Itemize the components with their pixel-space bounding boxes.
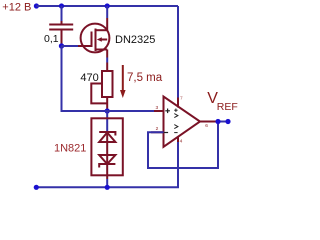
svg-text:1N821: 1N821 <box>54 143 86 155</box>
wire zener node to op-amp <box>105 110 155 112</box>
svg-text:3: 3 <box>156 105 159 111</box>
diode bottom: cathode bar <box>99 164 115 168</box>
+input stub <box>154 110 164 112</box>
V+ rotated label <box>174 109 178 118</box>
svg-text:2: 2 <box>156 126 159 132</box>
wire -input / feedback loop <box>148 122 218 169</box>
gate bar <box>91 32 93 48</box>
wire gate node down <box>62 46 106 111</box>
wire top +12V rail <box>36 5 178 7</box>
op-amp U1 <box>151 96 216 147</box>
resistor R1 470 <box>91 71 112 111</box>
wire zener top lead <box>106 111 108 131</box>
node junction gate/cap <box>59 43 64 48</box>
node output terminal <box>225 119 230 124</box>
wire bottom rail <box>36 186 179 188</box>
channel bar <box>95 29 97 52</box>
minus sign <box>164 132 168 134</box>
capacitor C1 0.1 <box>49 21 73 45</box>
wire gate <box>62 45 79 47</box>
node junction zener bottom <box>105 185 110 190</box>
node junction drain/rail <box>105 3 110 8</box>
wire output <box>216 121 228 123</box>
wire source to resistor <box>106 58 108 63</box>
wire cap top lead <box>61 6 63 21</box>
body arrow head <box>97 37 102 42</box>
zener top: cathode bar <box>99 132 115 136</box>
wire zener bottom to rail <box>106 179 108 187</box>
node +12V terminal dot <box>34 3 39 8</box>
gate lead inside <box>78 45 92 47</box>
node ground terminal dot <box>34 185 39 190</box>
wire V+ supply drop <box>177 6 179 98</box>
transistor Q1 DN2325 (depletion MOSFET) <box>78 18 109 58</box>
svg-text:7: 7 <box>180 96 183 102</box>
zener top: triangle <box>99 133 115 143</box>
source stub <box>96 49 108 51</box>
svg-text:470: 470 <box>80 72 98 84</box>
svg-text:0,1: 0,1 <box>44 33 59 45</box>
V- pin stub <box>177 137 179 143</box>
V+ pin stub <box>177 98 179 108</box>
output stub <box>200 121 216 123</box>
V- rotated label <box>174 125 178 133</box>
source lead down <box>106 50 108 58</box>
node output junction <box>215 119 220 124</box>
tap hook <box>91 84 107 104</box>
drain stub <box>96 29 108 31</box>
diode bottom: triangle <box>99 155 115 164</box>
node junction cap/rail <box>59 3 64 8</box>
node junction zener top <box>105 108 110 113</box>
svg-text:DN2325: DN2325 <box>115 34 155 46</box>
drain lead up <box>106 18 108 30</box>
svg-text:4: 4 <box>180 139 183 145</box>
svg-text:REF: REF <box>217 101 238 113</box>
current arrow 7.5 mA <box>122 65 124 91</box>
zener D1 D2 1N821 box <box>91 118 122 179</box>
plus sign <box>164 109 170 133</box>
wire V- to ground rail <box>177 142 179 187</box>
svg-text:7,5 ma: 7,5 ma <box>127 72 163 84</box>
bottom lead <box>106 155 108 179</box>
wire drain to rail <box>106 6 108 18</box>
middle link <box>106 132 108 155</box>
svg-text:6: 6 <box>205 123 208 129</box>
-input stub <box>151 131 164 133</box>
body stub with arrow <box>100 39 107 41</box>
svg-text:+12 В: +12 В <box>2 1 31 13</box>
